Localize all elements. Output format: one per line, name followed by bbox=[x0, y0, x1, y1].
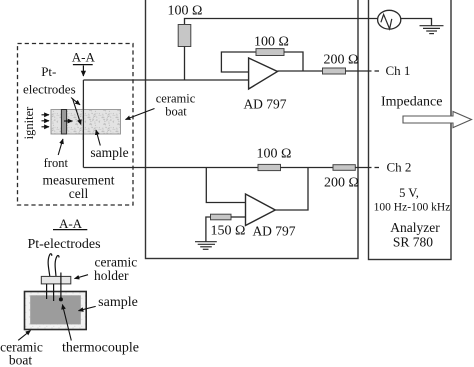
impedance block arrow bbox=[403, 112, 472, 128]
wire U1 feedback loop bbox=[221, 52, 256, 72]
svg-text:holder: holder bbox=[94, 268, 129, 283]
svg-text:electrodes: electrodes bbox=[23, 82, 76, 97]
label measurement cell bbox=[43, 173, 115, 202]
svg-text:A-A: A-A bbox=[59, 216, 83, 231]
svg-text:100 Ω: 100 Ω bbox=[254, 35, 289, 50]
thermocouple bead bbox=[59, 297, 63, 301]
resistor R3 200Ω bbox=[323, 68, 346, 74]
AC source V1 bbox=[378, 10, 401, 29]
wire U2 output up to row2 bbox=[275, 168, 308, 211]
wire Ch1 stub bbox=[375, 70, 380, 72]
arrow electrodes 1 bbox=[71, 98, 80, 105]
svg-text:sample: sample bbox=[90, 145, 128, 160]
electrode wire in boat bbox=[82, 100, 84, 140]
svg-text:front: front bbox=[44, 156, 69, 170]
wire U1 output bbox=[278, 70, 323, 72]
op-amp U1 AD797 bbox=[249, 58, 278, 89]
main circuit box bbox=[146, 0, 359, 259]
svg-text:Pt-: Pt- bbox=[41, 64, 56, 79]
arrow thermocouple bbox=[62, 305, 71, 341]
svg-text:ceramic: ceramic bbox=[156, 92, 196, 106]
op-amp U2 AD797 bbox=[246, 194, 276, 226]
svg-text:100 Ω: 100 Ω bbox=[257, 147, 292, 162]
Pt wire hook 2 bbox=[55, 255, 59, 276]
svg-text:100 Ω: 100 Ω bbox=[168, 4, 203, 19]
svg-text:cell: cell bbox=[69, 186, 89, 201]
ceramic boat (plan) bbox=[51, 110, 121, 135]
wire row2 mid bbox=[281, 167, 334, 169]
wire R5 to ground bbox=[206, 217, 211, 242]
arrow ceramic boat (section) bbox=[18, 331, 30, 341]
svg-text:200 Ω: 200 Ω bbox=[324, 53, 359, 68]
arrow igniter inside bbox=[64, 120, 73, 122]
label A-A (section view) bbox=[53, 216, 87, 231]
svg-text:SR 780: SR 780 bbox=[393, 235, 433, 250]
arrow sample (section) bbox=[79, 306, 96, 310]
sample (section) bbox=[30, 295, 81, 324]
svg-text:boat: boat bbox=[165, 105, 187, 119]
svg-text:150 Ω: 150 Ω bbox=[211, 224, 246, 239]
label Pt-electrodes (cell) bbox=[23, 64, 76, 97]
svg-text:A-A: A-A bbox=[72, 50, 96, 65]
wire R1 bottom bbox=[184, 47, 186, 81]
wire Ch2 stub bbox=[375, 167, 380, 169]
resistor R2 100Ω feedback bbox=[256, 49, 284, 56]
wire R6 to analyzer bbox=[355, 167, 371, 169]
arrow sample (cell) bbox=[96, 130, 100, 146]
svg-text:thermocouple: thermocouple bbox=[62, 341, 139, 356]
svg-text:Analyzer: Analyzer bbox=[390, 220, 440, 235]
arrow ceramic holder bbox=[75, 275, 89, 279]
svg-text:100 Hz-100 kHz: 100 Hz-100 kHz bbox=[374, 202, 451, 214]
measurement cell dashed box bbox=[18, 44, 134, 206]
label ceramic boat (section) bbox=[0, 340, 43, 367]
resistor R4 100Ω row2 bbox=[258, 164, 281, 170]
svg-text:Pt-electrodes: Pt-electrodes bbox=[27, 237, 100, 252]
resistor R6 200Ω row2 bbox=[333, 165, 355, 171]
svg-text:Ch 1: Ch 1 bbox=[386, 63, 411, 78]
igniter strip bbox=[61, 110, 66, 135]
wire top rail bbox=[185, 19, 378, 25]
svg-text:sample: sample bbox=[98, 295, 138, 310]
Pt wire hook 1 bbox=[48, 254, 52, 277]
svg-text:Ch 2: Ch 2 bbox=[387, 160, 412, 175]
svg-text:boat: boat bbox=[9, 353, 32, 367]
igniter feed arrows bbox=[42, 115, 50, 127]
svg-text:AD 797: AD 797 bbox=[252, 224, 295, 239]
label ceramic boat (cell) bbox=[156, 92, 196, 119]
wire R5 to U2 input bbox=[231, 216, 246, 218]
svg-text:AD 797: AD 797 bbox=[243, 97, 286, 112]
label A-A section marker bbox=[72, 50, 96, 65]
svg-text:Impedance: Impedance bbox=[381, 95, 442, 110]
analyzer box SR 780 bbox=[369, 0, 452, 260]
svg-text:igniter: igniter bbox=[22, 106, 36, 139]
resistor R1 100Ω vertical bbox=[178, 25, 191, 47]
wire row1 from cell to op-amp input bbox=[83, 79, 248, 81]
wire row2 tap to U2 input bbox=[206, 168, 245, 203]
arrow front bbox=[58, 139, 63, 155]
arrow A-A down bbox=[82, 66, 84, 77]
electrode wire vertical in cell bbox=[82, 80, 84, 168]
svg-text:5 V,: 5 V, bbox=[399, 186, 419, 200]
resistor R5 150Ω bbox=[211, 214, 232, 220]
ceramic holder bar bbox=[41, 276, 71, 284]
wire R3 to analyzer bbox=[346, 70, 372, 72]
wire feedback right drop bbox=[284, 52, 303, 71]
svg-text:200 Ω: 200 Ω bbox=[324, 176, 359, 191]
wire source to ground bbox=[401, 19, 432, 26]
holder wires into sample bbox=[47, 273, 61, 302]
ground G2 bbox=[195, 242, 217, 250]
ground G1 bbox=[420, 26, 444, 34]
arrow electrodes 2 bbox=[73, 99, 81, 125]
arrow ceramic boat (cell) bbox=[126, 109, 155, 120]
ceramic boat (section) bbox=[25, 292, 87, 330]
wire row2 from cell to resistor bbox=[83, 167, 258, 169]
label ceramic holder bbox=[94, 255, 137, 284]
